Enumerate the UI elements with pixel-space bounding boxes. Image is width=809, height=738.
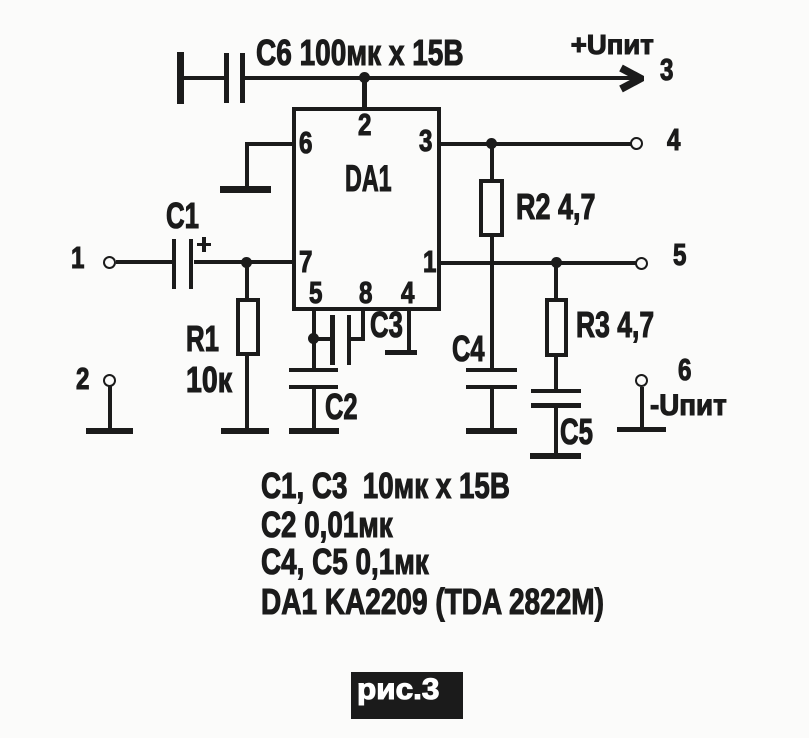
terminal 4 label: [667, 124, 680, 155]
note C4 C5 values: [261, 544, 429, 580]
pin number 6: [299, 127, 312, 158]
resistor R2: [479, 179, 505, 237]
wire +Uпит rail: [244, 76, 633, 81]
ground R1: [221, 428, 269, 434]
terminal 1: [103, 256, 116, 269]
capacitor C6: [0, 0, 1, 1]
label C1 polarity +: [0, 0, 1, 1]
label C3: [370, 307, 403, 343]
junction pin 1 / R3: [551, 257, 562, 268]
terminal 5 label: [673, 239, 686, 270]
note C1 C3 values: [261, 468, 510, 504]
wire C3 to pin 8: [351, 337, 365, 341]
terminal 2 label: [76, 363, 89, 394]
terminal 6 label: [678, 354, 691, 385]
IC DA1: [292, 107, 441, 311]
junction pin 3 / R2: [486, 138, 497, 149]
wire pin 2: [362, 78, 367, 108]
capacitor C4: [0, 0, 1, 1]
wire terminal 1 to C1: [116, 260, 172, 264]
wire C5 to ground: [554, 408, 558, 453]
ground C2: [289, 428, 339, 435]
wire R1 to ground: [245, 356, 249, 428]
terminal 5: [635, 257, 648, 270]
wire pin 8: [361, 311, 365, 341]
wire R3 top: [554, 263, 558, 298]
capacitor C3: [0, 0, 1, 1]
caption text рис.3: [357, 675, 439, 705]
capacitor C2: [0, 0, 1, 1]
label DA1: [345, 160, 392, 197]
junction pin 5 / C3: [308, 333, 319, 344]
label C4: [452, 331, 484, 367]
wire pin 5: [312, 311, 316, 369]
capacitor C5: [0, 0, 1, 1]
resistor R3: [545, 298, 568, 357]
resistor R1: [236, 298, 260, 357]
junction rail / pin 2: [359, 72, 370, 83]
pin number 1: [423, 246, 436, 277]
wire pin 4: [407, 311, 411, 351]
wire C1 to pin 7: [194, 260, 293, 264]
wire terminal 6 to ground: [640, 387, 644, 427]
ground terminal 2: [86, 428, 134, 434]
ground C4: [466, 428, 517, 434]
pin number 4: [401, 277, 414, 308]
pin number 3: [419, 125, 432, 156]
wire R2 top: [490, 145, 494, 180]
terminal 4: [630, 137, 643, 150]
wire junction to C3: [316, 337, 331, 341]
wire R3 to C5: [554, 357, 558, 391]
terminal 6: [635, 374, 648, 387]
wire pin 1 to terminal 5: [441, 261, 636, 265]
pin number 7: [299, 246, 312, 277]
wire C2 to ground: [312, 389, 316, 428]
label R3 value: [576, 307, 654, 343]
label R2 value: [516, 189, 595, 225]
wire pin 6: [0, 0, 1, 1]
label C5: [560, 414, 593, 450]
pin number 5: [309, 277, 322, 308]
label C2: [325, 389, 358, 425]
caption box рис.3: [351, 672, 463, 719]
pin number 8: [359, 277, 372, 308]
ground pin 6: [220, 186, 271, 193]
ground C5: [530, 453, 581, 460]
terminal 3 label: [660, 54, 673, 85]
label -Uпит: [650, 391, 727, 421]
wire R2 to C4: [490, 237, 494, 369]
ground pin 4: [385, 350, 418, 355]
label R1: [186, 321, 219, 357]
label C1: [166, 198, 199, 234]
arrow +Uпит: [617, 64, 644, 93]
wire pin 3 to terminal 4: [441, 142, 631, 146]
label R1 value 10к: [186, 362, 232, 398]
wire terminal 2 to ground: [108, 386, 112, 428]
junction pin 7 / R1: [241, 257, 252, 268]
pin number 2: [358, 109, 371, 140]
terminal 1 label: [71, 242, 84, 273]
label +Uпит: [571, 31, 654, 59]
wire C4 to ground: [490, 389, 494, 428]
label C6 value: [256, 35, 464, 71]
terminal 2: [103, 374, 116, 387]
wire junction to R1: [245, 262, 249, 298]
capacitor C1: [0, 0, 1, 1]
ground terminal 6: [617, 427, 666, 433]
note C2 value: [261, 507, 393, 543]
wire C6 plate link: [183, 76, 224, 81]
note DA1 type: [261, 584, 604, 620]
